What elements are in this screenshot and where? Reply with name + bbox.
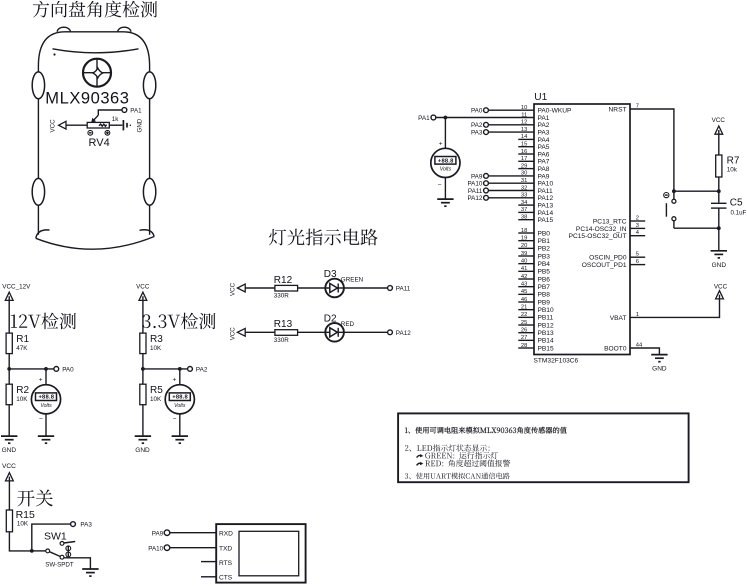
- wire D2 to PA12: [344, 331, 388, 333]
- wire R5 to ground: [142, 405, 144, 436]
- resistor R7: [716, 155, 722, 177]
- terminal PA2 (MCU): [484, 122, 489, 127]
- svg-text:34: 34: [521, 200, 528, 206]
- switch SW1: [46, 542, 75, 560]
- power VCC (R7): [715, 126, 723, 134]
- svg-text:VCC: VCC: [230, 327, 237, 341]
- car wheel: [32, 72, 44, 99]
- UART module body: [216, 524, 305, 583]
- wire meter to ground (PA1): [444, 178, 446, 200]
- title: steering wheel angle detection: [33, 1, 157, 18]
- note 2 text: [405, 444, 490, 451]
- wire R3 to node: [142, 354, 144, 369]
- wire PA12 to MCU: [488, 197, 534, 199]
- ground (switch): [82, 569, 98, 576]
- svg-text:10K: 10K: [150, 396, 162, 403]
- svg-text:PA0: PA0: [471, 108, 483, 115]
- wire VCC to VBAT pin 1: [630, 299, 720, 318]
- svg-text:PC14-OSC32_IN: PC14-OSC32_IN: [576, 226, 627, 233]
- pin 37 stub (PA14): [518, 211, 534, 213]
- resistor R15: [6, 510, 12, 532]
- svg-text:D3: D3: [324, 269, 337, 280]
- ground (3.3V divider): [135, 436, 151, 454]
- svg-text:1k: 1k: [112, 116, 119, 123]
- wire node to PA2: [143, 368, 188, 370]
- resistor R5: [140, 384, 146, 405]
- svg-text:+88.8: +88.8: [38, 395, 54, 401]
- svg-text:+88.8: +88.8: [438, 158, 454, 164]
- svg-text:GND: GND: [652, 366, 667, 373]
- title: light indicator circuit: [269, 229, 378, 246]
- svg-text:PA7: PA7: [538, 159, 550, 166]
- note GREEN text: [425, 452, 497, 459]
- pin 22 stub (PB11): [518, 316, 534, 318]
- title: 12V detection: [11, 313, 76, 330]
- svg-text:PA2: PA2: [196, 367, 208, 374]
- voltmeter (12V): [31, 385, 60, 414]
- svg-text:14: 14: [521, 134, 528, 140]
- svg-text:330R: 330R: [274, 293, 290, 300]
- svg-text:PA2: PA2: [538, 122, 550, 129]
- wire button bottom to C5 bottom: [674, 227, 719, 229]
- svg-text:PC13_RTC: PC13_RTC: [593, 218, 627, 225]
- wire VCC to R15: [8, 481, 10, 510]
- svg-text:R5: R5: [150, 385, 163, 396]
- wire VCC to R7: [718, 134, 720, 155]
- pin 14 stub (PA4): [518, 138, 534, 140]
- pin 16 stub (PA6): [518, 153, 534, 155]
- svg-text:Volts: Volts: [440, 167, 452, 173]
- car wheel: [143, 178, 155, 205]
- pin 41 stub (PB5): [518, 270, 534, 272]
- svg-text:R3: R3: [150, 334, 163, 345]
- pin 45 stub (PB8): [518, 293, 534, 295]
- svg-text:10K: 10K: [150, 345, 162, 352]
- pin 39 stub (PB3): [518, 255, 534, 257]
- svg-text:37: 37: [521, 207, 527, 213]
- terminal PA1 (pot wiper): [122, 108, 127, 113]
- svg-text:PA3: PA3: [80, 522, 92, 529]
- wire BOOT0 to ground: [630, 348, 659, 355]
- wire node to PA3 terminal: [32, 524, 71, 551]
- svg-text:R15: R15: [16, 509, 35, 521]
- wire PA3 to pin 13: [488, 131, 534, 133]
- svg-text:D2: D2: [324, 314, 337, 325]
- svg-text:−: −: [39, 416, 43, 423]
- pin 43 stub (PB7): [518, 286, 534, 288]
- svg-text:PA12: PA12: [538, 195, 554, 202]
- UART module inner screen: [239, 531, 299, 576]
- power VCC (switch): [6, 473, 14, 481]
- ground (rotated): [123, 120, 131, 130]
- wire PA1 to pin 11: [436, 117, 534, 119]
- svg-text:PA1: PA1: [538, 115, 550, 122]
- pin 27 stub (PB14): [518, 339, 534, 341]
- svg-text:GND: GND: [712, 262, 727, 269]
- svg-text:PB6: PB6: [538, 276, 551, 283]
- car bottom-right curl: [140, 230, 155, 237]
- svg-text:VCC: VCC: [712, 117, 726, 124]
- pin 34 stub (PA13): [518, 204, 534, 206]
- title: 3.3V detection: [142, 313, 215, 330]
- svg-text:BOOT0: BOOT0: [604, 345, 627, 352]
- svg-text:PB3: PB3: [538, 253, 551, 260]
- svg-text:R7: R7: [727, 156, 740, 167]
- resistor R13: [275, 330, 298, 336]
- pin stub RTS: [201, 561, 216, 563]
- car bottom swoosh: [36, 237, 154, 250]
- resistor R3: [140, 333, 146, 354]
- car mirror bump right: [118, 27, 131, 32]
- junction R7/C5 top: [717, 189, 721, 193]
- pin 29 stub (PA8): [518, 168, 534, 170]
- wire node to PA0: [9, 368, 54, 370]
- wire C5 to bottom node: [718, 208, 720, 228]
- resistor R2: [6, 384, 12, 405]
- svg-text:46: 46: [521, 297, 527, 303]
- wire D3 to PA11: [344, 287, 388, 289]
- pot body mark: [99, 124, 107, 126]
- svg-text:−: −: [438, 182, 442, 189]
- svg-text:PB12: PB12: [538, 322, 554, 329]
- svg-text:PB15: PB15: [538, 345, 554, 352]
- wire PA9 to RXD: [170, 532, 216, 534]
- svg-text:R13: R13: [274, 319, 293, 330]
- terminal PA10 (MCU): [484, 181, 489, 186]
- pin 21 stub (PB10): [518, 309, 534, 311]
- svg-text:+88.8: +88.8: [172, 395, 188, 401]
- svg-text:VCC: VCC: [2, 463, 16, 470]
- note box: [398, 413, 688, 482]
- terminal PA1 (MCU): [431, 115, 436, 120]
- wire PA2 to pin 12: [488, 124, 534, 126]
- svg-text:PA9: PA9: [538, 173, 550, 180]
- potentiometer RV4 body: [87, 122, 109, 128]
- svg-text:PB2: PB2: [538, 246, 551, 253]
- pin stub CTS: [201, 576, 216, 578]
- svg-text:PA15: PA15: [538, 217, 554, 224]
- power VCC (row2 left arrow): [237, 328, 245, 336]
- svg-text:R1: R1: [16, 334, 29, 345]
- junction meter tap (3.3V): [178, 367, 182, 371]
- wire R12 to D3: [298, 287, 326, 289]
- junction PA1 meter tap: [444, 116, 448, 120]
- junction node A (12V divider): [7, 367, 11, 371]
- LED D3: [325, 279, 344, 298]
- note 3 text: [405, 472, 510, 479]
- wire pot wiper: [98, 110, 122, 115]
- svg-text:+: +: [439, 141, 443, 148]
- wire NRST net: [630, 109, 674, 191]
- wire R15 to switch node: [9, 532, 31, 551]
- svg-text:RED: RED: [341, 321, 355, 328]
- power VCC (VBAT): [716, 291, 724, 299]
- pin 26 stub (PB13): [518, 332, 534, 334]
- wire PA1 node to meter: [444, 118, 446, 149]
- svg-text:45: 45: [521, 289, 527, 295]
- svg-text:0.1uF: 0.1uF: [731, 209, 747, 216]
- svg-text:PA11: PA11: [396, 286, 411, 293]
- svg-text:19: 19: [521, 235, 527, 241]
- svg-text:42: 42: [521, 274, 527, 280]
- wire R7 to node: [718, 177, 720, 191]
- svg-text:PA1: PA1: [418, 115, 430, 122]
- terminal PA3 (switch): [71, 522, 76, 527]
- car windshield arc: [53, 49, 139, 53]
- wire node to meter (3.3V): [179, 369, 181, 385]
- pot trim plus button: [105, 130, 110, 135]
- svg-text:SW1: SW1: [44, 531, 67, 543]
- car body outline: [38, 32, 149, 235]
- svg-text:R12: R12: [274, 275, 293, 286]
- wire PA9 to MCU: [488, 175, 534, 177]
- svg-text:6: 6: [636, 259, 639, 265]
- svg-text:Volts: Volts: [174, 403, 186, 409]
- svg-text:16: 16: [521, 149, 527, 155]
- wire node to C5: [718, 191, 720, 202]
- svg-text:GND: GND: [2, 447, 17, 454]
- svg-text:PA14: PA14: [538, 210, 554, 217]
- junction meter tap: [44, 367, 48, 371]
- wire switch throw to ground: [64, 558, 91, 569]
- svg-text:40: 40: [521, 258, 527, 264]
- terminal PA12 (MCU): [484, 195, 489, 200]
- pot wiper arrow: [93, 115, 98, 120]
- svg-text:PA11: PA11: [468, 188, 483, 195]
- svg-text:PB9: PB9: [538, 299, 551, 306]
- junction node B (3.3V divider): [141, 367, 145, 371]
- svg-text:GND: GND: [137, 118, 144, 132]
- svg-text:43: 43: [521, 281, 527, 287]
- svg-text:PA5: PA5: [538, 144, 550, 151]
- resistor R1: [6, 333, 12, 354]
- svg-text:PA2: PA2: [471, 122, 483, 129]
- note bullet arrow (GREEN): [417, 455, 421, 457]
- power VCC (3.3V): [139, 292, 147, 300]
- pin 6 stub (OSCOUT_PD1): [630, 264, 645, 266]
- svg-text:OSCOUT_PD1: OSCOUT_PD1: [582, 262, 627, 269]
- svg-text:PA12: PA12: [396, 330, 411, 337]
- svg-text:Volts: Volts: [40, 403, 52, 409]
- svg-text:41: 41: [521, 266, 527, 272]
- svg-text:PB14: PB14: [538, 338, 554, 345]
- svg-text:29: 29: [521, 163, 527, 169]
- svg-text:PB5: PB5: [538, 269, 551, 276]
- terminal PA10 (UART): [164, 545, 170, 551]
- car wheel: [143, 72, 155, 99]
- wire node to R5: [142, 369, 144, 384]
- note 1 text: [405, 427, 567, 434]
- wire PA11 to MCU: [488, 190, 534, 192]
- svg-text:PA8: PA8: [538, 166, 550, 173]
- svg-text:PA11: PA11: [538, 188, 553, 195]
- pin 2 stub (PC13_RTC): [630, 220, 645, 222]
- ground (BOOT0): [651, 355, 667, 373]
- svg-text:3: 3: [636, 223, 639, 229]
- pin 18 stub (PB0): [518, 232, 534, 234]
- svg-text:GREEN: GREEN: [341, 277, 364, 284]
- svg-text:PA3: PA3: [471, 130, 483, 137]
- terminal PA9 (UART): [164, 530, 170, 536]
- svg-text:VCC: VCC: [136, 284, 150, 291]
- capacitor C5: [711, 203, 727, 208]
- svg-text:RV4: RV4: [89, 137, 110, 149]
- wire node to switch common: [32, 550, 46, 552]
- svg-text:PA1: PA1: [130, 107, 142, 114]
- wire pot to VCC: [66, 124, 87, 126]
- svg-text:PA10: PA10: [148, 545, 163, 552]
- svg-text:PA4: PA4: [538, 137, 550, 144]
- svg-text:PA0: PA0: [62, 367, 74, 374]
- wire node to R2: [8, 369, 10, 384]
- svg-text:21: 21: [521, 304, 527, 310]
- svg-text:39: 39: [521, 251, 527, 257]
- car marker dot: [53, 53, 55, 55]
- wire PA0 to pin 10: [488, 109, 534, 111]
- svg-text:−: −: [173, 416, 177, 423]
- power VCC_12V: [5, 292, 13, 300]
- svg-text:PA12: PA12: [467, 195, 482, 202]
- svg-text:PA10: PA10: [467, 181, 482, 188]
- switch toggle widget: [66, 546, 71, 557]
- terminal PA11 (MCU): [484, 188, 489, 193]
- svg-text:SW-SPDT: SW-SPDT: [45, 562, 74, 569]
- svg-text:STM32F103C6: STM32F103C6: [534, 357, 579, 364]
- power VCC (left arrow): [59, 121, 66, 129]
- svg-text:28: 28: [521, 343, 527, 349]
- svg-text:NRST: NRST: [609, 106, 627, 113]
- wire VCC to R13: [245, 331, 275, 333]
- svg-text:PA9: PA9: [152, 530, 164, 537]
- pin 5 stub (OSCIN_PD0): [630, 256, 645, 258]
- svg-text:GND: GND: [135, 447, 150, 454]
- svg-text:PB7: PB7: [538, 284, 551, 291]
- svg-text:26: 26: [521, 327, 527, 333]
- terminal PA12: [388, 330, 393, 335]
- button minus widget: [664, 193, 669, 198]
- svg-text:PB10: PB10: [538, 307, 554, 314]
- wire pot to GND: [109, 124, 122, 126]
- pin 42 stub (PB6): [518, 278, 534, 280]
- svg-text:10k: 10k: [727, 167, 738, 174]
- svg-text:VBAT: VBAT: [610, 315, 627, 322]
- svg-text:17: 17: [521, 156, 527, 162]
- svg-text:330R: 330R: [274, 337, 290, 344]
- steering wheel icon: [83, 59, 111, 87]
- svg-text:2: 2: [636, 215, 639, 221]
- terminal PA9 (MCU): [484, 174, 489, 179]
- svg-text:PB1: PB1: [538, 238, 551, 245]
- pin 4 stub (PC15-OSC32_OUT): [630, 235, 645, 237]
- pin 3 stub (PC14-OSC32_IN): [630, 227, 645, 229]
- svg-text:18: 18: [521, 228, 527, 234]
- svg-text:VCC: VCC: [714, 283, 728, 290]
- ground (12V divider): [1, 436, 17, 454]
- ground (3.3V meter): [172, 436, 188, 443]
- wire VCC to R12: [245, 287, 275, 289]
- car wheel: [32, 178, 44, 205]
- terminal PA11: [388, 286, 393, 291]
- junction C5 bottom: [717, 226, 721, 230]
- note RED text: [425, 460, 510, 467]
- car bottom-left curl: [36, 230, 50, 238]
- svg-text:U1: U1: [534, 92, 547, 103]
- wire bottom node to ground: [718, 228, 720, 251]
- svg-text:22: 22: [521, 312, 527, 318]
- wire R13 to D2: [298, 331, 326, 333]
- svg-text:PB4: PB4: [538, 261, 551, 268]
- svg-text:VCC_12V: VCC_12V: [2, 284, 31, 291]
- svg-text:PA13: PA13: [538, 203, 554, 210]
- svg-text:RTS: RTS: [219, 560, 233, 567]
- svg-text:PB0: PB0: [538, 230, 551, 237]
- ground (PA1 meter): [437, 199, 453, 206]
- terminal PA2: [188, 367, 193, 372]
- svg-text:R2: R2: [16, 385, 29, 396]
- svg-text:CTS: CTS: [219, 575, 233, 582]
- ground (12V meter): [38, 436, 54, 443]
- car mirror bump left: [57, 27, 70, 32]
- svg-text:PC15-OSC32_OUT: PC15-OSC32_OUT: [569, 233, 627, 240]
- wire meter to ground: [45, 414, 47, 436]
- svg-text:PA3: PA3: [538, 130, 550, 137]
- wire VCC to R1: [8, 300, 10, 333]
- pin 46 stub (PB9): [518, 301, 534, 303]
- pin 15 stub (PA5): [518, 146, 534, 148]
- wire PA10 to MCU: [488, 182, 534, 184]
- pin 40 stub (PB4): [518, 263, 534, 265]
- svg-text:PA0-WKUP: PA0-WKUP: [538, 108, 573, 115]
- svg-text:PB11: PB11: [538, 315, 554, 322]
- pin 38 stub (PA15): [518, 219, 534, 221]
- svg-text:PB13: PB13: [538, 330, 554, 337]
- svg-text:TXD: TXD: [219, 546, 232, 553]
- svg-text:RXD: RXD: [219, 531, 233, 538]
- wire PA10 to TXD: [170, 547, 216, 549]
- pin 17 stub (PA7): [518, 160, 534, 162]
- title: switch: [17, 490, 53, 507]
- resistor R12: [275, 285, 298, 291]
- terminal PA3 (MCU): [484, 130, 489, 135]
- svg-text:VCC: VCC: [230, 282, 237, 296]
- svg-text:20: 20: [521, 243, 527, 249]
- wire meter to ground (3.3V): [179, 414, 181, 436]
- svg-text:47K: 47K: [16, 345, 28, 352]
- wire R1 to node: [8, 354, 10, 369]
- svg-text:5: 5: [636, 252, 639, 258]
- svg-text:+: +: [39, 377, 43, 384]
- wire R2 to ground: [8, 405, 10, 436]
- svg-text:10K: 10K: [17, 520, 29, 527]
- voltmeter (PA1 angle): [431, 148, 460, 177]
- svg-text:38: 38: [521, 215, 527, 221]
- svg-text:C5: C5: [730, 198, 743, 209]
- voltmeter (3.3V): [165, 385, 194, 414]
- svg-text:PB8: PB8: [538, 292, 551, 299]
- pin 25 stub (PB12): [518, 324, 534, 326]
- junction NRST/button: [672, 189, 676, 193]
- op-amp/MCU U1 body: [534, 104, 630, 355]
- terminal PA0: [54, 367, 59, 372]
- svg-text:MLX90363: MLX90363: [45, 89, 129, 107]
- pin 20 stub (PB2): [518, 247, 534, 249]
- wire VCC to R3: [142, 300, 144, 333]
- power VCC (row1 left arrow): [237, 284, 245, 292]
- wire button to R7/C5 node: [674, 190, 719, 192]
- LED D2: [325, 323, 344, 342]
- junction switch node: [30, 549, 34, 553]
- svg-text:PA10: PA10: [538, 181, 554, 188]
